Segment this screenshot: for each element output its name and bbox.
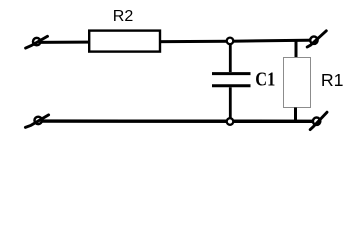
- svg-text:C1: C1: [255, 69, 275, 90]
- svg-text:R1: R1: [321, 70, 344, 90]
- svg-text:R2: R2: [113, 8, 134, 25]
